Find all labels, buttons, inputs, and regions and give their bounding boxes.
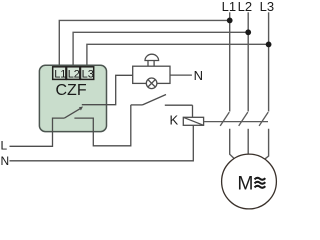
CZF internal contact blade with arrow <box>64 107 83 119</box>
wire CZF terminal L3 to phase L3 <box>87 44 269 67</box>
bell stem <box>148 61 154 67</box>
wire CZF common output to lamp branch <box>82 75 133 104</box>
terminal L3 <box>81 67 94 81</box>
contactor contact on L2 <box>239 112 248 126</box>
svg-text:L3: L3 <box>82 68 94 80</box>
wire CZF terminal L2 to phase L2 <box>73 32 248 67</box>
phase line L1 (upper segment) <box>229 12 231 111</box>
phase line L3 (upper segment) <box>268 12 270 111</box>
svg-text:L1: L1 <box>222 0 236 14</box>
svg-text:N: N <box>1 154 10 168</box>
motor feed wire phase 2 <box>247 129 249 154</box>
svg-text:CZF: CZF <box>56 82 87 99</box>
motor waves symbol <box>255 178 266 188</box>
terminal L2 <box>67 67 80 81</box>
CZF internal contact fixed terminal (right) <box>74 118 93 132</box>
svg-text:K: K <box>170 113 179 128</box>
svg-text:M: M <box>237 174 253 195</box>
CZF internal changeover contact: pole from L <box>53 118 65 132</box>
signal lamp unit body <box>133 66 170 83</box>
wire switch to coil K top <box>192 105 194 117</box>
motor M 3ph body <box>222 154 277 209</box>
svg-text:L3: L3 <box>260 0 274 14</box>
svg-text:L: L <box>1 139 8 153</box>
svg-text:L2: L2 <box>68 68 80 80</box>
motor feed wire phase 1 <box>230 129 234 159</box>
mechanical linkage coil to contacts <box>204 121 268 123</box>
contactor contact on L1 <box>220 112 229 126</box>
motor feed wire phase 3 <box>265 129 269 160</box>
terminal L1 <box>53 67 67 81</box>
manual switch S <box>131 95 193 106</box>
junction dot on L3 <box>266 42 272 48</box>
bell dome on lamp unit <box>145 54 159 60</box>
wire CZF terminal L1 to phase L1 <box>59 20 229 67</box>
lamp circle with cross <box>146 78 157 89</box>
wire lamp unit to N <box>170 74 192 76</box>
phase line L2 (upper segment) <box>247 12 249 111</box>
wire N rail to coil K <box>10 125 194 161</box>
junction dot on L1 <box>227 18 233 24</box>
junction dot on L2 <box>245 29 251 35</box>
wire L feed to CZF pole <box>10 132 53 147</box>
wire CZF contact to manual switch <box>93 105 131 146</box>
contactor coil K <box>183 117 203 125</box>
svg-text:L2: L2 <box>238 0 252 14</box>
relay CZF body <box>39 65 106 131</box>
contactor contact on L3 <box>259 112 268 126</box>
svg-text:N: N <box>194 68 203 83</box>
svg-text:L1: L1 <box>54 68 66 80</box>
